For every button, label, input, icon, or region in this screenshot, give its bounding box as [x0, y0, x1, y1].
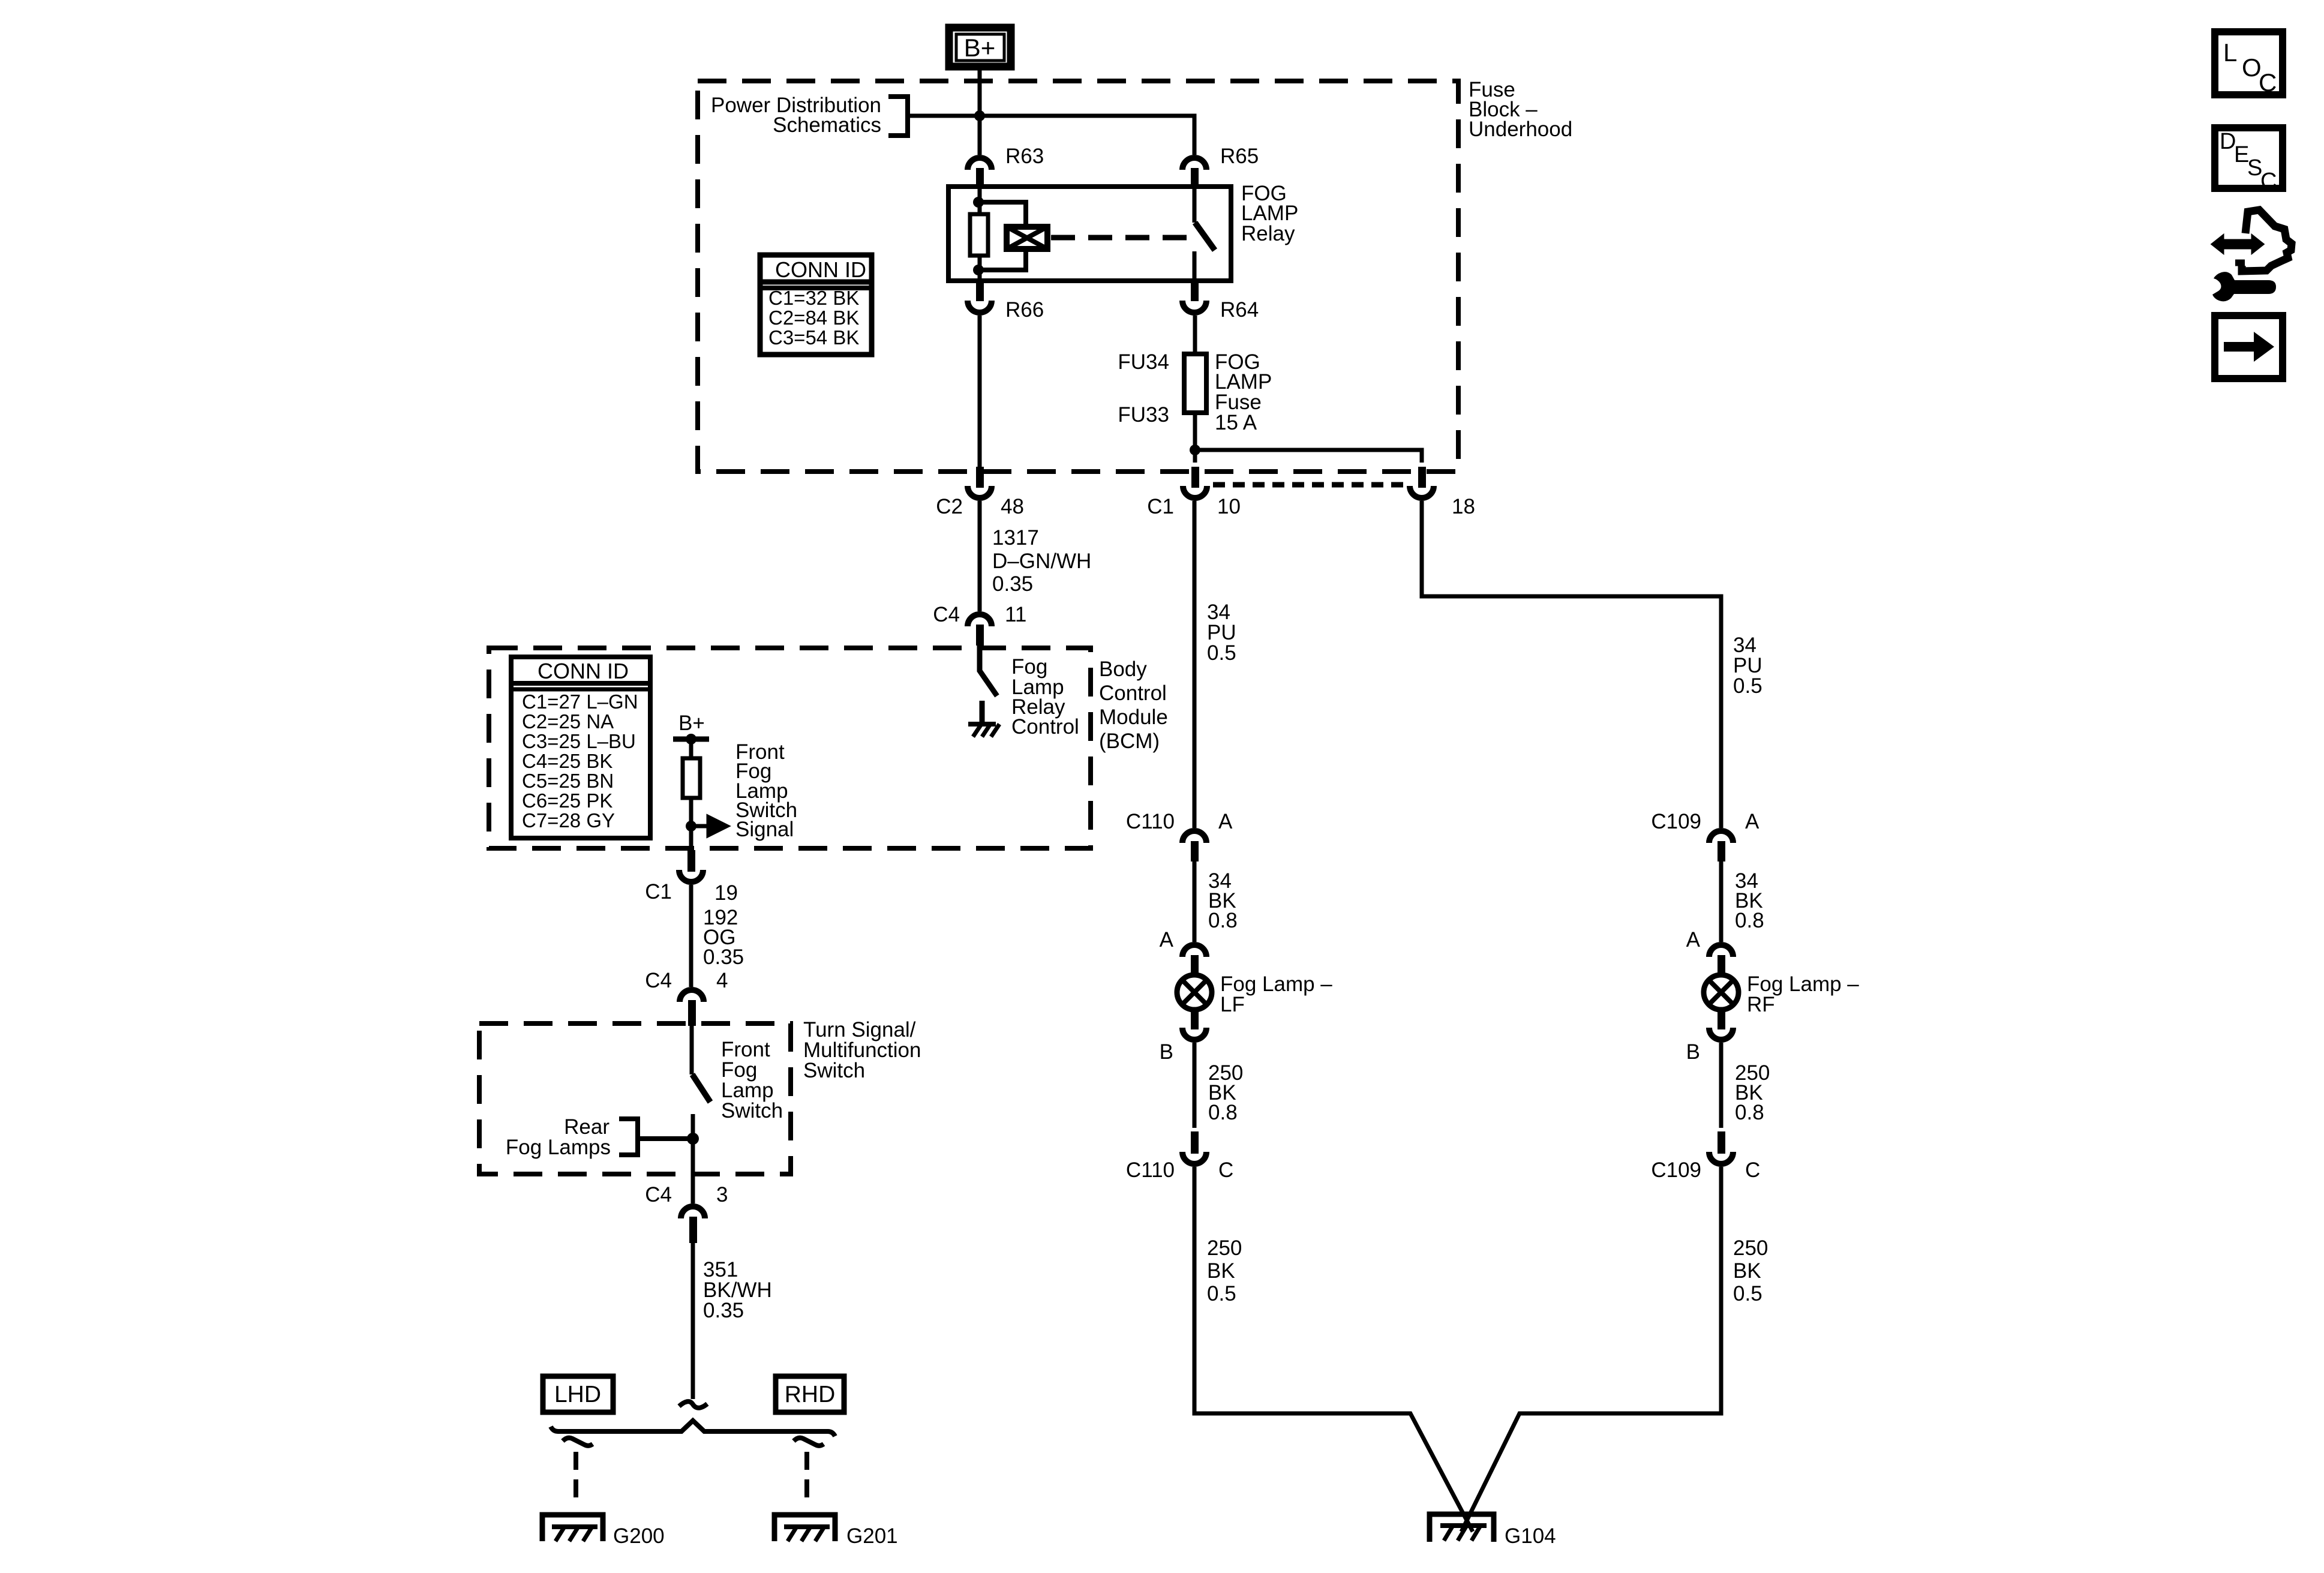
connector C110-A	[1126, 810, 1233, 861]
svg-text:C2: C2	[936, 495, 963, 518]
svg-text:B+: B+	[964, 34, 996, 62]
connector C4-4	[645, 969, 728, 1026]
junction dot B+ feed	[974, 110, 985, 121]
wire R66 down to C2	[978, 316, 982, 467]
RHD box	[776, 1376, 844, 1412]
icon service tools	[2212, 210, 2292, 301]
wire C109-A to lamp RF	[1719, 858, 1724, 942]
connector A fog lamp LF	[1160, 928, 1206, 975]
connector C1-10 (BCM)	[1147, 467, 1241, 518]
svg-text:Signal: Signal	[735, 818, 794, 841]
wire label 192 OG 0.35	[703, 906, 744, 969]
svg-text:R64: R64	[1220, 298, 1259, 322]
svg-text:C7=28 GY: C7=28 GY	[522, 809, 615, 831]
svg-text:(BCM): (BCM)	[1099, 730, 1160, 753]
svg-text:C4: C4	[645, 1183, 672, 1206]
svg-text:0.8: 0.8	[1735, 1101, 1764, 1124]
connector C2-48 (BCM top)	[936, 467, 1024, 518]
connector B fog lamp RF	[1686, 1028, 1733, 1064]
svg-text:10: 10	[1217, 495, 1241, 518]
svg-text:0.8: 0.8	[1735, 909, 1764, 932]
BCM fog lamp relay control switch	[980, 646, 997, 696]
svg-text:250: 250	[1207, 1236, 1242, 1260]
BCM B+ pull-up	[673, 712, 709, 851]
relay solenoid X box	[1007, 227, 1047, 249]
svg-text:LF: LF	[1220, 993, 1245, 1016]
svg-text:C4: C4	[645, 969, 672, 992]
svg-text:Schematics: Schematics	[773, 113, 881, 137]
wire label 250 BK 0.8 right	[1735, 1061, 1770, 1124]
svg-text:Switch: Switch	[803, 1059, 865, 1082]
junction dot below fuse	[1190, 445, 1200, 455]
svg-text:B+: B+	[678, 712, 705, 735]
svg-text:RF: RF	[1747, 993, 1775, 1016]
connector R65	[1182, 145, 1259, 187]
wire B+ down to R63	[978, 67, 982, 155]
svg-text:Module: Module	[1099, 706, 1168, 729]
icon DESC box	[2215, 128, 2283, 194]
svg-text:Underhood: Underhood	[1469, 118, 1572, 141]
label Fog Lamp Relay Control	[1011, 655, 1079, 739]
svg-text:0.35: 0.35	[703, 945, 744, 969]
label Front Fog Lamp Switch	[721, 1038, 783, 1122]
connector 18 (BCM)	[1410, 467, 1475, 518]
wire fuse down to junction	[1193, 413, 1197, 463]
svg-text:Fog Lamps: Fog Lamps	[506, 1136, 611, 1159]
svg-text:CONN ID: CONN ID	[775, 257, 866, 282]
svg-text:C: C	[1745, 1158, 1760, 1182]
svg-text:C109: C109	[1651, 810, 1701, 833]
harness variant brace	[551, 1421, 835, 1436]
svg-text:0.35: 0.35	[992, 572, 1033, 596]
svg-text:R65: R65	[1220, 145, 1259, 168]
wire label 34 BK 0.8 right	[1735, 869, 1764, 932]
front fog lamp switch	[692, 1026, 710, 1203]
icon LOC box	[2215, 32, 2283, 97]
svg-text:19: 19	[714, 881, 738, 905]
svg-text:0.35: 0.35	[703, 1299, 744, 1322]
BCM internal ground	[968, 701, 999, 737]
svg-text:Body: Body	[1099, 658, 1147, 681]
svg-text:Switch: Switch	[721, 1099, 783, 1122]
rear fog lamps bracket	[619, 1119, 638, 1155]
label Fog Lamp - LF	[1220, 972, 1332, 1016]
label Turn Signal/Multifunction Switch	[803, 1018, 921, 1082]
svg-text:0.8: 0.8	[1208, 909, 1238, 932]
svg-text:0.5: 0.5	[1733, 1282, 1762, 1305]
LHD dashed drop	[574, 1452, 578, 1506]
svg-text:A: A	[1745, 810, 1759, 833]
wire label 250 BK 0.5 left	[1207, 1236, 1242, 1305]
relay coil resistor	[970, 187, 988, 281]
wire label 34 BK 0.8 left	[1208, 869, 1238, 932]
svg-text:C1=27 L–GN: C1=27 L–GN	[522, 691, 638, 713]
ground G201	[774, 1515, 898, 1548]
svg-text:A: A	[1686, 928, 1701, 951]
svg-text:C5=25 BN: C5=25 BN	[522, 770, 614, 792]
wire R64 down to fuse	[1193, 316, 1197, 354]
wire-end crimp symbol	[679, 1401, 707, 1408]
svg-text:Relay: Relay	[1241, 222, 1295, 245]
wire C2 to C4	[978, 501, 982, 611]
svg-text:48: 48	[1001, 495, 1024, 518]
svg-text:G104: G104	[1505, 1524, 1556, 1548]
wire C1-10 down to C110-A	[1193, 501, 1197, 828]
fog lamp LF bulb	[1177, 975, 1212, 1029]
svg-text:G201: G201	[846, 1524, 898, 1548]
connector A fog lamp RF	[1686, 928, 1733, 975]
connector C1-19	[645, 850, 738, 905]
Body Control Module dashed box	[489, 648, 1091, 848]
svg-text:C1: C1	[1147, 495, 1174, 518]
svg-text:C4: C4	[933, 603, 960, 626]
svg-text:C3=54 BK: C3=54 BK	[768, 326, 859, 349]
svg-text:0.5: 0.5	[1207, 1282, 1236, 1305]
CONN ID table (BCM)	[511, 657, 650, 838]
svg-text:BK: BK	[1207, 1259, 1235, 1283]
wire label 34 PU 0.5 right	[1733, 634, 1762, 698]
off-page reference bracket	[888, 97, 908, 136]
connector B fog lamp LF	[1160, 1028, 1206, 1064]
svg-text:C109: C109	[1651, 1158, 1701, 1182]
svg-text:CONN ID: CONN ID	[538, 659, 629, 683]
ground G104	[1430, 1514, 1556, 1548]
connector R66	[968, 281, 1044, 322]
svg-text:C: C	[2259, 68, 2277, 97]
svg-text:4: 4	[716, 969, 728, 992]
fog lamp RF bulb	[1704, 975, 1739, 1029]
wire label 250 BK 0.5 right	[1733, 1236, 1768, 1305]
connector C110-C	[1126, 1131, 1233, 1182]
svg-text:D–GN/WH: D–GN/WH	[992, 550, 1091, 573]
wire C109-C to G104	[1461, 1167, 1721, 1532]
wire C110-A to lamp LF	[1193, 858, 1197, 942]
svg-text:B: B	[1160, 1040, 1173, 1064]
label Rear Fog Lamps	[506, 1115, 611, 1159]
B+ battery feed box	[949, 28, 1011, 67]
wire C1-19 to C4-4	[689, 885, 693, 987]
svg-text:C110: C110	[1126, 1158, 1175, 1182]
svg-text:LHD: LHD	[554, 1382, 601, 1407]
svg-text:C110: C110	[1126, 810, 1175, 833]
svg-text:RHD: RHD	[785, 1382, 836, 1407]
svg-text:C3=25 L–BU: C3=25 L–BU	[522, 730, 636, 752]
svg-text:C1: C1	[645, 880, 672, 903]
svg-text:C: C	[2260, 169, 2277, 194]
svg-text:Control: Control	[1099, 682, 1167, 705]
wire C4-3 down to split	[691, 1242, 695, 1399]
svg-text:1317: 1317	[992, 526, 1039, 550]
svg-text:C: C	[1218, 1158, 1233, 1182]
ground G200	[542, 1515, 665, 1548]
label Fog Lamp - RF	[1747, 972, 1859, 1016]
svg-text:C1=32 BK: C1=32 BK	[768, 287, 859, 309]
RHD drop crimp	[794, 1438, 824, 1446]
svg-text:15 A: 15 A	[1215, 411, 1257, 434]
svg-text:FU33: FU33	[1118, 403, 1169, 427]
wire B to C109-C	[1719, 1043, 1724, 1128]
Turn Signal / Multifunction Switch dashed box	[479, 1023, 791, 1174]
svg-text:B: B	[1686, 1040, 1700, 1064]
svg-text:R63: R63	[1005, 145, 1044, 168]
svg-text:C2=25 NA: C2=25 NA	[522, 710, 614, 733]
svg-text:G200: G200	[613, 1524, 665, 1548]
svg-text:250: 250	[1733, 1236, 1768, 1260]
label FOG LAMP Relay	[1241, 182, 1298, 245]
svg-text:0.5: 0.5	[1733, 674, 1762, 698]
dotted link C1 connector pins	[1213, 482, 1407, 488]
connector C109-A	[1651, 810, 1759, 861]
svg-text:C4=25 BK: C4=25 BK	[522, 750, 612, 772]
BCM signal arrow	[691, 817, 726, 835]
Fuse Block - Underhood dashed box	[698, 81, 1458, 472]
wire bracket to R65	[908, 116, 1194, 155]
relay coil loop wire	[978, 202, 1026, 270]
RHD dashed drop	[804, 1452, 809, 1506]
wire junction to 18 drop	[1195, 450, 1422, 463]
label Front Fog Lamp Switch Signal	[735, 740, 797, 841]
svg-text:C2=84 BK: C2=84 BK	[768, 307, 859, 329]
svg-text:A: A	[1218, 810, 1233, 833]
LHD drop crimp	[563, 1438, 593, 1446]
fuse FU34/FU33 FOG LAMP Fuse 15A	[1118, 350, 1272, 434]
svg-text:18: 18	[1452, 495, 1475, 518]
junction dot switch tap	[687, 1133, 699, 1145]
icon continue arrow box	[2215, 316, 2283, 379]
wire label 250 BK 0.8 left	[1208, 1061, 1243, 1124]
wire rear fog lamps tap	[638, 1136, 693, 1141]
wire label 351 BK/WH 0.35	[703, 1258, 772, 1322]
wire 18 over to C109-A	[1422, 501, 1721, 828]
wire label 1317 D-GN/WH 0.35	[992, 526, 1091, 596]
relay coil dashed link	[1051, 235, 1199, 241]
svg-text:0.5: 0.5	[1207, 641, 1236, 665]
LHD box	[543, 1376, 613, 1412]
label Body Control Module (BCM)	[1099, 658, 1168, 753]
svg-text:Control: Control	[1011, 715, 1079, 739]
wire label 34 PU 0.5 left	[1207, 601, 1236, 665]
svg-text:BK: BK	[1733, 1259, 1761, 1283]
svg-text:L: L	[2223, 38, 2237, 67]
FOG LAMP relay box	[948, 187, 1231, 281]
label Power Distribution Schematics	[711, 94, 881, 137]
connector R63	[968, 145, 1044, 187]
relay switch	[1194, 187, 1215, 281]
connector C4-3	[645, 1183, 728, 1243]
svg-text:R66: R66	[1005, 298, 1044, 322]
connector C109-C	[1651, 1131, 1760, 1182]
svg-text:FU34: FU34	[1118, 350, 1169, 374]
svg-text:C6=25 PK: C6=25 PK	[522, 789, 612, 812]
label Fuse Block - Underhood	[1469, 78, 1572, 141]
svg-text:A: A	[1160, 928, 1174, 951]
connector R64	[1182, 281, 1259, 322]
svg-text:3: 3	[716, 1183, 728, 1206]
wire B to C110-C	[1193, 1043, 1197, 1128]
svg-text:0.8: 0.8	[1208, 1101, 1238, 1124]
CONN ID table (fuse block)	[760, 255, 872, 355]
svg-text:11: 11	[1005, 603, 1026, 626]
connector C4-11	[933, 603, 1026, 646]
wire C110-C to G104	[1194, 1167, 1473, 1532]
